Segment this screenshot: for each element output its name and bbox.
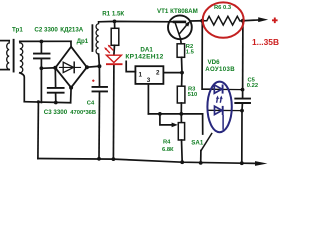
bridge bottom lead: [70, 88, 73, 103]
optocoupler light arrow 1: [216, 99, 219, 103]
low horizontal line (minus of bridge): [24, 102, 70, 103]
capacitor C3 plates: [48, 88, 64, 93]
capacitor C2 bottom lead: [40, 59, 42, 68]
transistor VT1 collector lead to R2: [180, 39, 183, 44]
junction R6 right / output: [241, 19, 245, 23]
wire B from R6 right node down: [242, 21, 244, 98]
transistor VT1 emitter with arrow: [180, 25, 187, 33]
optocoupler light arrowhead 1: [216, 96, 219, 100]
bridge top lead: [70, 41, 72, 46]
bottom rail output arrowhead: [255, 161, 267, 166]
potentiometer R4 wiper wire: [160, 114, 172, 125]
optocoupler top diode triangle: [214, 85, 222, 93]
junction SA1 / bottom rail: [199, 161, 203, 165]
resistor R1 top lead: [114, 21, 116, 28]
capacitor C3 bottom lead: [55, 93, 57, 102]
svg-text:КР142ЕН12: КР142ЕН12: [125, 54, 163, 61]
choke bottom lead: [98, 54, 101, 66]
resistor R3 top lead: [181, 73, 183, 87]
transistor VT1 base bar: [174, 21, 185, 24]
resistor R1 bottom lead: [113, 45, 116, 55]
DA1 pin2 lead: [163, 72, 182, 74]
dc rail wire (choke to transistor base): [99, 20, 175, 22]
optocoupler top diode bar: [222, 85, 224, 94]
junction LED line / bottom rail: [112, 157, 116, 161]
junction C3 bottom / minus line: [54, 101, 58, 105]
potentiometer R4 bottom lead: [181, 140, 184, 162]
resistor R3 bottom lead: [180, 103, 182, 114]
DA1 regulator box: [135, 66, 163, 84]
capacitor C2 plates: [34, 54, 50, 59]
potentiometer R4 wiper arrow: [172, 123, 178, 128]
junction bridge left vertex: [53, 66, 57, 70]
bridge right lead wire: [87, 66, 100, 67]
optocoupler bottom diode lead to wire B: [209, 109, 242, 111]
junction DA1 pin2 / R2 R3: [180, 71, 184, 75]
resistor R1 body: [111, 28, 119, 45]
transistor VT1 circle: [168, 15, 192, 39]
svg-text:6.8К: 6.8К: [162, 147, 174, 153]
transformer T1 secondary winding: [20, 41, 23, 72]
capacitor C4 bottom lead: [98, 92, 101, 159]
output plus sign red: [272, 18, 278, 24]
transformer T1 core: [13, 40, 15, 72]
svg-text:R4: R4: [163, 139, 171, 145]
LED triangle: [106, 55, 121, 62]
junction C4 / bottom rail: [97, 157, 101, 161]
optocoupler top diode axis lead to wire B: [202, 88, 242, 90]
optocoupler light arrow 2: [219, 99, 222, 103]
output plus wire: [243, 19, 259, 22]
red + mark near C4: [92, 80, 94, 82]
junction C2 bottom node: [40, 66, 44, 70]
DA1 pin1 lead: [126, 61, 135, 71]
svg-text:VD6: VD6: [208, 59, 221, 66]
svg-text:R1 1.5К: R1 1.5К: [102, 11, 124, 18]
capacitor C3 top lead: [54, 68, 56, 87]
choke L1 (Dr1) winding: [96, 22, 99, 54]
transistor VT1 collector: [175, 23, 180, 38]
secondary return drop to bottom rail: [37, 102, 40, 159]
capacitor C5 plates: [235, 99, 250, 103]
svg-text:С4: С4: [87, 100, 95, 106]
svg-text:1: 1: [139, 72, 143, 79]
optocoupler VD6 ellipse: [207, 82, 231, 133]
optocoupler light arrowhead 2: [220, 96, 223, 100]
optocoupler bottom diode bar: [222, 106, 224, 115]
transformer T1 primary top lead: [0, 40, 9, 42]
svg-text:SA1: SA1: [191, 140, 204, 147]
emitter exit wire to R6 node: [190, 20, 202, 22]
labels green: [12, 5, 258, 153]
transformer T1 secondary bottom lead: [20, 73, 25, 102]
LED HL red symbol: [106, 46, 123, 64]
transformer T1 primary bottom lead: [0, 69, 9, 71]
potentiometer R4 body: [178, 123, 184, 140]
junction opto LED lead / wire B: [241, 88, 245, 92]
DA1 pin3 lead: [147, 84, 149, 114]
LED arrowheads: [104, 45, 110, 51]
bottom rail: [38, 159, 256, 164]
LED cathode bar: [106, 63, 123, 65]
bridge diode bar: [73, 62, 75, 72]
junction bridge bottom vertex: [69, 86, 73, 90]
choke L1 (Dr1) core: [91, 25, 93, 51]
svg-text:КД213А: КД213А: [60, 27, 84, 34]
junction R6 left / emitter: [200, 19, 204, 23]
svg-text:С3 3300: С3 3300: [44, 109, 68, 116]
switch SA1 lever: [201, 134, 212, 151]
bridge diode axis: [60, 66, 81, 68]
red ellipse around R6: [203, 2, 244, 37]
junction bridge right vertex: [85, 65, 89, 69]
resistor R2 bottom lead: [181, 57, 184, 72]
capacitor C2 top lead: [40, 41, 42, 53]
junction wire B / bottom rail: [240, 161, 244, 165]
top rail wire: [20, 40, 71, 42]
wire pin3 to R4/SA1: [148, 113, 202, 115]
junction R4 wiper wire: [158, 112, 162, 116]
svg-text:1.5: 1.5: [186, 49, 195, 55]
svg-text:510: 510: [188, 92, 198, 98]
junction R4 / bottom rail: [180, 160, 184, 164]
optocoupler inner vertical to ellipse bottom: [222, 115, 224, 130]
junction choke bottom / C4 top: [97, 64, 101, 68]
switch SA1 bottom lead: [200, 151, 202, 164]
svg-text:0.22: 0.22: [247, 83, 258, 89]
svg-text:С2 3300: С2 3300: [34, 27, 58, 34]
capacitor C5 bottom lead / wire B to bottom rail: [241, 104, 244, 164]
wire C2 to bridge left vertex: [41, 67, 55, 70]
LED arrow 1: [106, 49, 110, 53]
switch SA1 top lead: [202, 114, 204, 134]
resistor R6 zigzag: [202, 16, 243, 25]
wire A from R6 left node down to optocoupler: [202, 21, 214, 89]
bridge diode triangle: [63, 62, 73, 72]
svg-text:VT1 КТ808АМ: VT1 КТ808АМ: [157, 8, 198, 15]
junction C2 top / top rail: [40, 40, 44, 44]
svg-text:1...35В: 1...35В: [252, 37, 279, 47]
DA1 pin numbers: [139, 69, 161, 83]
capacitor C4 top lead: [98, 66, 100, 86]
junction secondary return / minus line: [37, 100, 40, 103]
potentiometer R4 top lead: [180, 114, 182, 123]
junction R4 top: [179, 112, 183, 116]
svg-text:DA1: DA1: [140, 47, 153, 54]
transformer T1 primary winding: [7, 41, 10, 70]
resistor R2 body: [177, 44, 185, 58]
resistor R3 body: [177, 86, 185, 103]
svg-text:Тр1: Тр1: [12, 26, 23, 33]
svg-text:2: 2: [156, 69, 160, 76]
LED arrow 2: [109, 46, 113, 50]
svg-text:4700*36В: 4700*36В: [70, 110, 96, 116]
svg-text:Др1: Др1: [77, 38, 89, 45]
junction R1 top / dc rail: [113, 20, 117, 24]
capacitor C4 plates: [93, 87, 108, 92]
svg-text:АОУ103В: АОУ103В: [205, 66, 235, 73]
output plus arrowhead: [258, 17, 268, 22]
LED cathode line down to bottom rail: [112, 65, 115, 159]
junction opto thyristor lead / wire B: [240, 109, 244, 113]
bridge rectifier diamond: [55, 47, 87, 88]
optocoupler bottom diode triangle: [215, 106, 223, 114]
wire C2 line down to low line: [40, 68, 42, 102]
svg-text:R6 0.3: R6 0.3: [214, 5, 232, 11]
svg-text:3: 3: [147, 77, 151, 84]
